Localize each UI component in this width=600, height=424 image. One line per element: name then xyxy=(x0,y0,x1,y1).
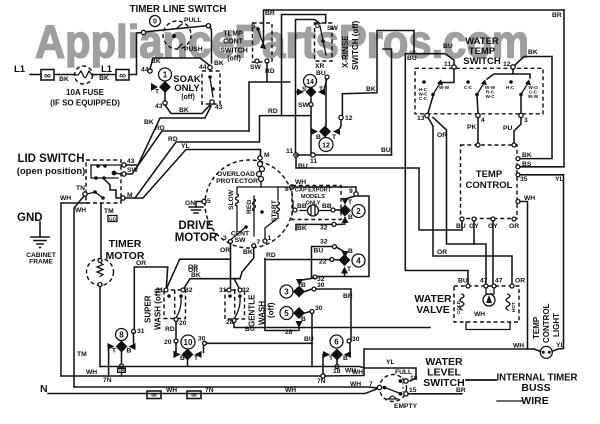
contact 2 fixed dot xyxy=(466,80,470,84)
svg-text:32: 32 xyxy=(185,287,193,294)
wire 3 to 30 xyxy=(305,289,312,292)
wire WH into light xyxy=(534,349,541,352)
svg-text:BK: BK xyxy=(99,75,109,82)
svg-text:BG: BG xyxy=(118,368,125,373)
terminal 44 right xyxy=(208,65,212,69)
wire pivot3 to 3 xyxy=(520,96,522,113)
wire right tri to 31 xyxy=(133,333,135,343)
terminal 9 xyxy=(354,192,358,196)
switch S0 dashed body xyxy=(163,21,191,49)
svg-text:SUPER: SUPER xyxy=(144,295,153,323)
svg-text:LIGHT: LIGHT xyxy=(552,313,561,337)
dashed link line xyxy=(402,378,404,393)
svg-text:TIMER LINE SWITCH: TIMER LINE SWITCH xyxy=(130,3,227,15)
svg-text:PK: PK xyxy=(467,124,476,131)
wire 5 to ground xyxy=(196,202,202,208)
svg-text:XR: XR xyxy=(315,63,324,70)
soak cam dashed box xyxy=(202,71,220,104)
svg-text:CONTROL: CONTROL xyxy=(542,303,551,343)
svg-text:CAP EXPORT: CAP EXPORT xyxy=(295,188,332,194)
svg-text:TM: TM xyxy=(77,351,87,358)
wire to fuse xyxy=(54,74,75,76)
svg-text:YL: YL xyxy=(181,143,190,150)
contact 1 pivot dot xyxy=(431,93,435,97)
wire WH cap bus xyxy=(294,187,356,192)
svg-text:B: B xyxy=(301,282,306,289)
wire 20 down xyxy=(175,322,177,340)
super wash dashed box xyxy=(164,290,186,319)
svg-text:9: 9 xyxy=(349,188,353,195)
svg-text:TEMP: TEMP xyxy=(476,169,503,180)
wire timer motor down xyxy=(99,287,101,367)
svg-text:(off): (off) xyxy=(227,56,241,63)
svg-text:CONT: CONT xyxy=(223,39,244,46)
arm arrowhead xyxy=(260,42,266,49)
lid switch dashed box xyxy=(86,160,121,203)
svg-text:31: 31 xyxy=(156,287,164,294)
svg-text:11: 11 xyxy=(310,158,317,165)
svg-text:REG: REG xyxy=(246,200,253,215)
terminal 3 xyxy=(229,240,233,244)
svg-text:B: B xyxy=(343,355,348,362)
svg-text:BU: BU xyxy=(458,278,468,285)
svg-text:30: 30 xyxy=(315,305,323,312)
light bulb xyxy=(540,346,552,358)
lid contact row 1 xyxy=(91,164,122,166)
wire WH from lid left xyxy=(74,196,84,387)
pivot dot xyxy=(383,386,387,390)
svg-text:BU: BU xyxy=(381,147,391,154)
terminal circle PK top xyxy=(476,143,480,147)
wire 47a feed xyxy=(433,118,486,284)
timer motor terminal top xyxy=(98,259,102,263)
circled contact number 1 xyxy=(159,68,172,81)
solenoid diamond 14 xyxy=(306,87,317,98)
svg-text:ONLY: ONLY xyxy=(174,83,200,94)
terminal 32 xyxy=(332,222,336,226)
wire 8 to motor xyxy=(278,186,290,188)
fuse F1 10A dashed circle xyxy=(75,66,93,84)
bus1 YL line xyxy=(100,367,416,382)
svg-text:(off): (off) xyxy=(181,94,195,101)
svg-text:12: 12 xyxy=(345,115,353,122)
wire loop 9 2 4 right xyxy=(317,196,369,277)
contact arm xyxy=(176,297,181,318)
contact dot xyxy=(321,39,325,43)
terminal 43 right xyxy=(210,100,214,104)
svg-text:31: 31 xyxy=(137,328,145,335)
svg-text:GD: GD xyxy=(109,217,117,222)
reg winding coil xyxy=(253,199,256,211)
svg-text:3: 3 xyxy=(524,117,528,124)
wire diamond stem down xyxy=(121,353,123,368)
svg-text:6: 6 xyxy=(334,338,339,347)
svg-text:11: 11 xyxy=(444,61,451,68)
contact dot S xyxy=(256,27,260,31)
svg-text:TEMP: TEMP xyxy=(532,316,541,339)
wire BU bottom xyxy=(296,157,462,230)
svg-text:W-W: W-W xyxy=(439,85,450,90)
wire RD down xyxy=(249,63,290,131)
svg-text:YL: YL xyxy=(555,176,564,183)
terminal 31 xyxy=(227,288,231,292)
wire BU vertical to 11 bus xyxy=(383,49,392,155)
svg-text:TIMER: TIMER xyxy=(109,238,142,250)
svg-text:W-W: W-W xyxy=(528,94,539,99)
circled contact number 5 xyxy=(280,307,293,320)
water valve dashed box xyxy=(454,286,519,322)
svg-text:10: 10 xyxy=(184,338,193,347)
wire 35 to light xyxy=(520,175,564,341)
wire BK from top loop down to cam 12 terminal xyxy=(342,31,414,116)
svg-text:WH: WH xyxy=(350,381,361,388)
svg-text:TN: TN xyxy=(76,185,85,192)
terminal 32 xyxy=(238,288,242,292)
svg-text:DRIVE: DRIVE xyxy=(178,220,213,232)
wire right tri to 30 xyxy=(203,345,205,352)
water temp switch dashed box xyxy=(415,68,543,114)
svg-text:BK: BK xyxy=(191,272,201,279)
solenoid diamond 3 xyxy=(293,286,305,298)
bus2 xyxy=(61,375,321,377)
capacitor terminal left xyxy=(293,208,297,212)
drive motor dashed circle xyxy=(205,160,293,248)
svg-text:3: 3 xyxy=(284,288,289,297)
svg-text:EMPTY: EMPTY xyxy=(394,403,418,410)
svg-text:LID SWITCH: LID SWITCH xyxy=(17,153,84,165)
wire slow coil down xyxy=(236,206,238,231)
temp control dashed box xyxy=(461,145,518,219)
wire diamond stem to bus1 xyxy=(336,361,338,366)
wire 5 to 30 xyxy=(305,312,310,314)
svg-text:32: 32 xyxy=(320,225,328,232)
svg-text:SW: SW xyxy=(327,25,338,32)
lid contact big dot xyxy=(112,171,117,176)
svg-text:L1: L1 xyxy=(14,64,26,75)
svg-text:BU: BU xyxy=(443,43,453,50)
svg-text:14: 14 xyxy=(306,79,314,86)
wire right tri to 30 xyxy=(349,343,351,355)
circled contact number 6 xyxy=(330,335,343,348)
wire valve bottom stub xyxy=(466,322,510,330)
svg-text:WIRE: WIRE xyxy=(521,395,548,407)
svg-text:WH: WH xyxy=(60,195,71,202)
terminal 35 xyxy=(516,173,520,177)
svg-text:BK: BK xyxy=(528,49,538,56)
svg-text:31: 31 xyxy=(219,287,227,294)
full contact dot xyxy=(399,379,403,383)
svg-text:OR: OR xyxy=(220,247,230,254)
svg-text:7N: 7N xyxy=(317,378,326,385)
terminal GY1 bottom xyxy=(472,217,476,221)
svg-text:43: 43 xyxy=(215,104,223,111)
wire left tri to 20 xyxy=(174,343,176,352)
soak triangle left xyxy=(151,83,158,91)
capacitor symbol xyxy=(308,205,319,216)
svg-text:BK: BK xyxy=(366,86,376,93)
fuse element xyxy=(75,71,94,78)
full terminal xyxy=(404,379,408,383)
svg-text:TM: TM xyxy=(104,208,114,215)
wire switch to terminal 44 xyxy=(210,27,212,63)
contact arm xyxy=(234,297,240,319)
svg-text:RD: RD xyxy=(165,326,175,333)
svg-text:B: B xyxy=(180,355,185,362)
contact dot xyxy=(172,34,176,38)
svg-text:WASH (off): WASH (off) xyxy=(154,288,163,330)
svg-text:20: 20 xyxy=(179,320,187,327)
wire BU from top xyxy=(405,54,454,64)
svg-text:(IF SO EQUIPPED): (IF SO EQUIPPED) xyxy=(50,99,120,108)
svg-text:N: N xyxy=(40,383,48,395)
wire BK chain from cent sw 7 xyxy=(234,248,254,279)
svg-text:COLD: COLD xyxy=(456,300,461,314)
svg-text:D: D xyxy=(315,23,320,30)
terminal circle xr xyxy=(325,75,329,79)
triangle right B xyxy=(344,351,351,358)
wire PU from 3 xyxy=(514,118,521,146)
wire GY1 xyxy=(473,221,475,244)
wire BG to bus2 xyxy=(121,374,123,376)
svg-text:BK: BK xyxy=(59,76,69,83)
svg-text:20: 20 xyxy=(164,339,172,346)
wire 22 xyxy=(334,259,339,262)
svg-text:S: S xyxy=(251,23,256,30)
wire diamond to 43 xyxy=(164,93,166,101)
terminal 30 xyxy=(203,341,207,345)
wire WH down to light xyxy=(520,202,528,350)
svg-text:W-C: W-C xyxy=(485,94,495,99)
svg-text:BK: BK xyxy=(144,119,154,126)
terminal BS xyxy=(516,165,520,169)
terminal 30 a xyxy=(312,287,316,291)
svg-text:OR: OR xyxy=(515,278,525,285)
triangle right T xyxy=(333,128,340,135)
terminal BK xyxy=(516,157,520,161)
terminal 7N circle xyxy=(321,374,325,378)
triangle right T xyxy=(195,351,202,358)
connector BG xyxy=(117,368,126,374)
svg-text:BK: BK xyxy=(214,60,224,67)
svg-text:BU: BU xyxy=(316,70,326,77)
svg-text:HOT: HOT xyxy=(511,302,516,312)
terminal 7 xyxy=(377,385,381,389)
wire 4 bottom to loop xyxy=(344,274,346,277)
terminal 11 xyxy=(452,65,456,69)
triangle left B xyxy=(174,351,181,358)
wire YL xyxy=(135,150,261,199)
terminal 1 xyxy=(263,239,267,243)
soak solenoid diamond xyxy=(159,81,171,93)
svg-text:2: 2 xyxy=(356,207,361,216)
terminal OR bottom xyxy=(512,217,516,221)
svg-text:30: 30 xyxy=(317,282,325,289)
arrow push xyxy=(178,44,182,48)
svg-text:32: 32 xyxy=(320,239,328,246)
wire 32 to triangle xyxy=(302,278,314,280)
svg-text:1: 1 xyxy=(268,235,272,242)
switch arm xyxy=(146,26,207,32)
arm arrowhead 3 xyxy=(525,80,531,86)
terminal 31 xyxy=(164,288,168,292)
wire BK 32 xyxy=(296,224,332,230)
wire YL into light xyxy=(552,341,563,351)
timer motor dashed circle xyxy=(87,259,114,286)
svg-text:OR: OR xyxy=(188,264,198,271)
svg-text:7N: 7N xyxy=(205,387,214,394)
wire 12 BK to right xyxy=(515,57,552,66)
terminal 44 left xyxy=(148,69,152,73)
svg-text:SWITCH: SWITCH xyxy=(220,48,248,55)
terminal 32 xyxy=(181,288,185,292)
svg-text:10A FUSE: 10A FUSE xyxy=(66,88,105,97)
solenoid diamond 8 xyxy=(116,341,128,353)
svg-text:∞: ∞ xyxy=(151,391,157,400)
lid contact row 2 xyxy=(91,165,118,178)
wire WH to light xyxy=(325,349,534,376)
wire OR from 13 xyxy=(428,118,512,284)
svg-text:BU: BU xyxy=(314,248,324,255)
circled contact number 3 xyxy=(280,285,293,298)
circled contact number 4 xyxy=(352,254,365,267)
solenoid diamond 2 xyxy=(339,205,351,217)
terminal 3 xyxy=(519,113,523,117)
wire TM down to timer motor xyxy=(100,203,102,259)
capacitor terminal right xyxy=(331,208,335,212)
terminal 28 xyxy=(232,319,236,323)
svg-text:OR: OR xyxy=(437,132,447,139)
terminal 43 left xyxy=(163,101,167,105)
svg-text:PROTECTOR: PROTECTOR xyxy=(216,178,258,185)
wire from fuse xyxy=(94,74,116,76)
svg-text:OR: OR xyxy=(437,249,447,256)
svg-text:18: 18 xyxy=(410,375,418,382)
cam contact dot lower xyxy=(211,87,215,91)
svg-text:B: B xyxy=(348,214,353,221)
triangle left T xyxy=(323,351,330,358)
wire RD2 xyxy=(125,116,311,198)
svg-text:GN: GN xyxy=(185,200,195,207)
svg-text:OVERLOAD: OVERLOAD xyxy=(217,171,255,178)
svg-text:WH: WH xyxy=(86,369,97,376)
svg-text:PU: PU xyxy=(503,125,512,132)
triangle left S xyxy=(297,89,304,96)
super wash divider xyxy=(174,290,176,319)
terminal WH xyxy=(516,200,520,204)
triangle bottom xyxy=(341,267,348,274)
wire left tri to 7N xyxy=(323,355,324,375)
solenoid diamond 6 xyxy=(331,349,343,361)
triangle right T xyxy=(318,89,325,96)
wire 12 down to arms xyxy=(487,69,513,79)
terminal circle SW xyxy=(309,103,313,107)
cold solenoid coil xyxy=(460,294,464,310)
wire BK right xyxy=(520,57,552,159)
svg-text:SWITCH: SWITCH xyxy=(463,56,501,67)
mixing symbol xyxy=(483,294,495,306)
wire gentle 32 feed xyxy=(234,279,239,289)
svg-text:M: M xyxy=(264,152,270,159)
svg-text:SW: SW xyxy=(250,64,261,71)
wire 28 to cam 5 xyxy=(265,259,297,331)
svg-text:7: 7 xyxy=(257,239,261,246)
wire 30b down xyxy=(311,314,313,367)
svg-text:8: 8 xyxy=(119,331,124,340)
wire 28 triangle xyxy=(298,328,300,331)
svg-text:H-C: H-C xyxy=(506,85,515,90)
svg-text:30: 30 xyxy=(352,336,360,343)
wire coil to windings xyxy=(237,182,261,194)
triangle top B xyxy=(296,279,303,286)
svg-text:12: 12 xyxy=(322,143,330,150)
circled contact number 8 xyxy=(116,329,128,341)
wire soak top loop xyxy=(150,58,209,69)
legend wire sample xyxy=(497,400,522,402)
solenoid diamond 12 xyxy=(319,126,331,138)
contact 1 arm xyxy=(433,82,441,95)
svg-text:BK: BK xyxy=(297,225,307,232)
terminal 32 xyxy=(313,275,317,279)
circled contact number 14 xyxy=(304,75,317,88)
terminal 18 on bus xyxy=(335,365,339,369)
solenoid diamond 10 xyxy=(182,349,194,361)
triangle left T xyxy=(108,343,115,350)
svg-text:MODELS: MODELS xyxy=(301,194,325,200)
connector CO-2 xyxy=(116,70,129,81)
bus3 WH xyxy=(74,387,378,388)
svg-text:13: 13 xyxy=(417,115,425,122)
svg-text:44: 44 xyxy=(199,64,207,71)
wire rect2 top xyxy=(282,15,326,116)
svg-text:YL: YL xyxy=(556,342,565,349)
svg-text:BR: BR xyxy=(456,387,466,394)
triangle bottom xyxy=(342,216,349,223)
lid arm from TN xyxy=(87,192,103,198)
terminal circle right xyxy=(206,24,210,28)
terminal BU bottom xyxy=(460,217,464,221)
x-rinse dashed box xyxy=(315,23,333,61)
connector CO-3 xyxy=(147,391,161,399)
svg-text:47: 47 xyxy=(495,278,503,285)
svg-text:BU: BU xyxy=(407,55,417,62)
terminal 12 xyxy=(511,65,515,69)
wire BK to x-rinse xyxy=(126,106,211,165)
svg-text:WH: WH xyxy=(285,387,296,394)
contact arm xyxy=(258,30,265,48)
terminal GY2 bottom xyxy=(491,217,495,221)
svg-text:BK: BK xyxy=(151,58,161,65)
terminal RD xyxy=(265,59,269,63)
triangle left B xyxy=(311,128,318,135)
wire start to 1 xyxy=(265,214,278,239)
timer motor terminal bottom xyxy=(98,283,102,287)
terminal M xyxy=(121,196,125,200)
empty terminal xyxy=(404,392,408,396)
svg-text:SLOW: SLOW xyxy=(228,189,235,210)
ground symbol xyxy=(31,237,49,248)
svg-text:PUSH: PUSH xyxy=(184,46,203,53)
circled contact number 12 xyxy=(319,138,333,152)
arm arrowhead xyxy=(437,80,443,86)
terminal TN xyxy=(83,192,87,196)
circled contact number 2 xyxy=(352,205,365,218)
terminal 7 xyxy=(252,244,256,248)
svg-text:VALVE: VALVE xyxy=(416,304,449,316)
svg-text:RD: RD xyxy=(155,125,165,132)
triangle top T xyxy=(342,198,349,205)
svg-text:WH: WH xyxy=(474,311,485,318)
terminal circle PU top xyxy=(512,143,516,147)
